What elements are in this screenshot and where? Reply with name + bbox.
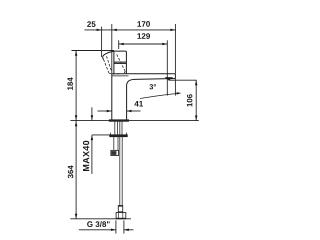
label G 3/8&quot;	[87, 221, 109, 227]
wire: extension line left of 25	[101, 27, 103, 57]
spout underside and neck curve	[127, 79, 176, 120]
arrow 25/170 shared at body	[112, 29, 117, 32]
arrow 129 left	[119, 43, 124, 46]
body left edge	[111, 74, 113, 120]
spout top edge	[112, 73, 176, 75]
label 25	[87, 21, 95, 27]
hose end collar	[118, 206, 122, 213]
spout tip edge	[174, 74, 176, 79]
arrow 364 bottom	[75, 214, 78, 219]
wire: 3-degree leader arc	[140, 94, 177, 99]
wire: G3/8 dimension line right tail	[124, 229, 134, 231]
label 3deg	[149, 84, 156, 89]
cartridge cap box: top and right edge	[114, 51, 127, 74]
label 170	[137, 21, 150, 27]
cap mid line 2	[114, 62, 127, 64]
faucet outline	[103, 51, 176, 120]
wire: G3/8 right extension	[123, 220, 125, 233]
wire: deck extension line	[70, 120, 198, 122]
wire: 184/364 vertical dimension line	[75, 51, 77, 219]
wire: extension line at body left / 170 left	[111, 24, 113, 74]
wire: MAX40 dimension line lower segment	[91, 135, 93, 174]
label 129	[137, 33, 150, 39]
arrow 106 bottom	[195, 116, 198, 121]
washer end ticks	[110, 133, 126, 135]
long supply pipe	[120, 137, 122, 206]
cartridge cap box: left edge	[113, 51, 115, 74]
wire: counter underside line	[92, 134, 110, 136]
label 364 rotated	[68, 165, 74, 178]
label 106 rotated	[187, 94, 193, 106]
short supply tube A	[114, 137, 118, 151]
arrow 184 top	[75, 51, 78, 56]
spout inner top line	[112, 75, 129, 77]
wire: 106 dimension line	[195, 80, 197, 120]
wire: extension line 170 right (spout tip)	[174, 24, 176, 73]
arrow G3/8 left	[111, 229, 116, 232]
base plate	[109, 119, 129, 121]
arrow 3-degree leader	[177, 92, 182, 94]
wire: 41 dimension line left tail	[98, 110, 112, 112]
wire: G3/8 left extension	[115, 220, 117, 233]
label 41	[134, 101, 143, 107]
arrow 184 bottom	[75, 115, 78, 120]
wire: 129 left extension	[118, 40, 120, 49]
arrow 170 right	[170, 29, 175, 32]
arrow 41 right	[127, 110, 132, 113]
wire: 41 dimension line right tail	[127, 110, 141, 112]
arrow 364 top	[75, 121, 78, 126]
label MAX40 rotated	[83, 141, 89, 171]
mounting nut washer bar	[109, 134, 127, 137]
arrow 25 left	[97, 29, 102, 32]
wire: bottom extension line at hose end	[70, 218, 131, 220]
wire: G3/8 dimension line left	[79, 229, 116, 231]
dimension texts	[67, 21, 192, 227]
lever top edge	[103, 51, 114, 59]
threaded shank lines	[115, 122, 122, 135]
label 184 rotated	[67, 77, 73, 90]
arrow G3/8 right	[124, 229, 129, 232]
arrow 129 right	[162, 43, 167, 46]
arrow MAX40 top	[91, 115, 94, 120]
lever dashed projection	[104, 54, 126, 74]
wire: MAX40 dimension line upper segment	[91, 107, 93, 120]
arrow 106 top	[195, 80, 198, 85]
wire: 129 right extension (outlet centre)	[166, 40, 168, 95]
cap mid line 1	[114, 61, 127, 63]
tube A end fitting box	[111, 150, 119, 155]
outlet flow arrow	[165, 77, 174, 80]
wire: outlet height extension line	[169, 79, 197, 81]
G3/8 nut	[116, 213, 126, 219]
wire: top-left extension line	[72, 50, 115, 52]
arrow 41 left	[107, 110, 112, 113]
wire: 129 dimension line	[119, 43, 168, 45]
wire: top dimension line (25/170)	[85, 29, 177, 31]
arrow MAX40 bottom	[91, 135, 94, 140]
